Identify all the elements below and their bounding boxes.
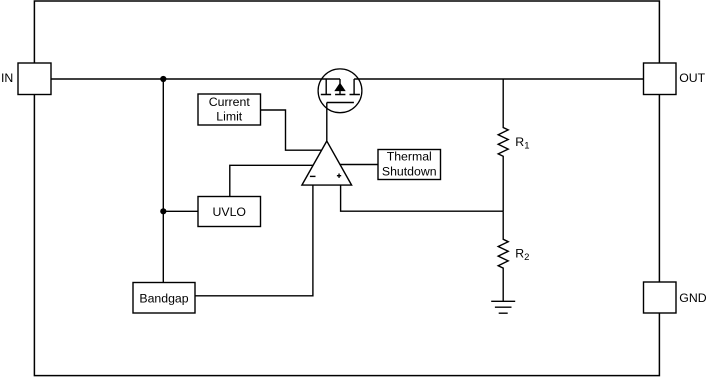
transistor M1 pass FET: channel segments [321,94,360,96]
svg-text:GND: GND [679,291,706,305]
svg-text:Shutdown: Shutdown [382,164,437,178]
pin pad IN [18,63,51,95]
wire: input rail down from junction 1 to junction 2 [162,79,164,211]
block: Bandgap [133,283,195,314]
wire: Bandgap output to inverting input [195,185,313,296]
node: input junction dot 1 [160,76,166,82]
svg-text:Current: Current [209,95,251,109]
resistor R1 [498,79,508,211]
transistor M1 pass FET: source bar [325,79,327,95]
wire: junction 2 to UVLO input [163,210,198,212]
block: Thermal Shutdown [378,150,441,180]
transistor M1 pass FET: circle [318,69,362,113]
wire: IN pad to pass FET source [51,78,340,80]
transistor M1 pass FET: body tap [339,79,341,95]
wire: error amp to Thermal Shutdown [340,164,378,166]
op-amp U1 plus sign [337,174,341,178]
transistor M1 pass FET: body arrow [336,84,345,91]
svg-text:UVLO: UVLO [213,205,247,219]
block: Current Limit [198,94,261,125]
ground symbol [491,301,515,313]
svg-text:Bandgap: Bandgap [139,291,188,305]
op-amp U1 minus sign [310,175,316,177]
wire: pass FET drain to OUT pad [354,78,643,80]
wire: junction 2 down to Bandgap input [162,211,164,282]
wire: gate lead to error amp output [326,103,328,142]
pin pad GND [644,282,677,313]
wire: UVLO output to error amp [230,165,314,196]
op-amp U1 error amplifier [302,141,352,185]
transistor M1 pass FET: gate plate [327,102,354,104]
svg-text:IN: IN [1,71,13,85]
wire: Current Limit output to error amp [261,110,322,150]
pin pad OUT [644,63,677,95]
svg-text:OUT: OUT [679,71,705,85]
node: input junction dot 2 [160,208,166,214]
svg-text:Limit: Limit [216,110,243,124]
wire: noninverting input to feedback node [341,185,504,211]
svg-text:Thermal: Thermal [387,150,432,164]
resistor R2 [498,211,508,301]
block: UVLO [198,197,261,227]
transistor M1 pass FET: drain bar [353,79,355,95]
